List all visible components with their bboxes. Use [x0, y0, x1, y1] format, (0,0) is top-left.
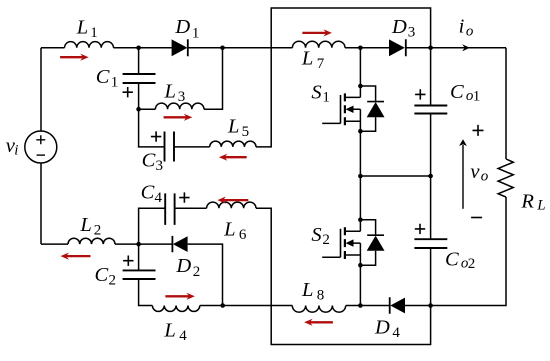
svg-text:L: L	[223, 218, 235, 240]
wire C2 top lead	[138, 244, 140, 270]
svg-text:1: 1	[90, 25, 98, 41]
svg-text:v: v	[470, 161, 480, 183]
junction node C1-L3	[136, 107, 141, 112]
svg-text:5: 5	[242, 124, 250, 140]
S1 gate lead	[322, 122, 340, 124]
svg-text:2: 2	[322, 232, 330, 248]
svg-text:4: 4	[155, 190, 163, 206]
svg-text:o: o	[466, 23, 474, 39]
current arrow L7 shaft	[302, 32, 327, 34]
current arrow L7 head	[323, 29, 332, 36]
wire load column upper	[505, 48, 507, 159]
wire C3 to L5	[174, 146, 210, 148]
svg-text:2: 2	[468, 256, 476, 272]
vo minus sign	[471, 217, 482, 219]
current arrow L5 shaft	[224, 156, 247, 158]
svg-text:L: L	[163, 319, 175, 341]
svg-text:R: R	[520, 190, 534, 212]
label L8	[301, 279, 324, 304]
inductor L2	[68, 238, 115, 244]
label vi	[6, 135, 19, 159]
capacitor Co1 plates	[414, 106, 447, 114]
wire D1 to L7	[188, 47, 293, 49]
junction node L8-S2-D4	[358, 303, 363, 308]
wire S1 drain stub column	[359, 86, 361, 131]
svg-text:1: 1	[473, 89, 481, 105]
S2 channel dashes	[344, 227, 346, 259]
current arrow L3 shaft	[164, 116, 188, 118]
inductor L8	[292, 306, 345, 313]
current arrow L2 head	[61, 253, 70, 260]
svg-text:S: S	[311, 224, 321, 246]
wire L3 right riser	[204, 48, 223, 109]
svg-text:C: C	[450, 81, 464, 103]
wire C1 bottom to C3 corner	[139, 83, 165, 147]
label vo	[470, 161, 488, 185]
svg-text:4: 4	[392, 325, 400, 341]
Co1 plus sign	[415, 89, 425, 99]
svg-text:L: L	[164, 81, 176, 103]
label C2	[95, 264, 117, 289]
svg-text:o: o	[481, 169, 489, 185]
svg-text:D: D	[374, 317, 390, 339]
label L5	[227, 116, 249, 141]
svg-text:1: 1	[192, 25, 200, 41]
svg-text:L: L	[301, 279, 313, 301]
wire L7 to D3	[345, 47, 389, 49]
wire Co column bottom	[430, 248, 432, 306]
current arrow L8 head	[304, 319, 313, 326]
wire L2 to node	[115, 243, 172, 245]
capacitor Co2 plates	[414, 239, 447, 248]
capacitor C2 plates	[123, 270, 156, 279]
S2 body diode branch	[360, 220, 375, 266]
wire vi bottom lead	[40, 163, 42, 244]
wire L8 to L4 node	[223, 305, 293, 307]
svg-text:L: L	[301, 48, 313, 70]
svg-text:3: 3	[408, 24, 416, 40]
current arrow L4 shaft	[165, 295, 190, 297]
vo arrow	[462, 145, 464, 209]
label L3	[164, 81, 186, 106]
S2 body diode triangle	[367, 236, 385, 251]
svg-text:L: L	[76, 17, 88, 39]
S1 body diode branch	[360, 86, 375, 131]
svg-text:C: C	[141, 181, 155, 203]
wire bottom rail D4 right	[405, 305, 431, 307]
C2 plus sign	[123, 256, 133, 266]
junction node mid rail	[358, 174, 363, 179]
inductor L6	[207, 202, 256, 208]
label L4	[163, 319, 187, 344]
wire D2 anode to corner down	[188, 244, 223, 305]
current arrow L5 head	[219, 154, 228, 161]
label Co1	[450, 81, 480, 104]
svg-text:1: 1	[322, 90, 330, 106]
svg-text:8: 8	[317, 288, 325, 304]
svg-text:D: D	[175, 255, 191, 277]
wire C1 top lead	[138, 48, 140, 74]
svg-text:2: 2	[109, 272, 117, 288]
junction node D4-Co2-load	[428, 303, 433, 308]
S2 stubs	[345, 231, 361, 255]
wire Co column top	[430, 48, 432, 106]
Co2 plus sign	[415, 224, 425, 234]
vi minus sign	[37, 154, 45, 156]
junction node S1 drain	[358, 84, 363, 89]
junction node L2-C4-C2-D2	[136, 242, 141, 247]
wire L6 right to box bottom edge	[256, 208, 431, 344]
label D2	[175, 255, 200, 280]
label L7	[301, 48, 325, 73]
S2 body diode bar	[367, 234, 384, 236]
wire C4 riser	[139, 208, 166, 244]
svg-text:S: S	[311, 82, 321, 104]
S1 stubs	[345, 97, 361, 121]
capacitor C3 plates	[165, 132, 175, 162]
wire Co column middle	[430, 114, 432, 240]
wire C4 to L6	[175, 207, 207, 209]
resistor RL	[498, 159, 513, 197]
inductor L1	[65, 42, 114, 48]
junction node S1 source	[358, 129, 363, 134]
wire S column top	[359, 48, 361, 86]
inductor L3	[155, 103, 204, 109]
junction node L1-C1-D1	[136, 46, 141, 51]
C4 plus sign	[179, 192, 189, 202]
label S2	[311, 224, 330, 248]
label C1	[96, 66, 119, 91]
svg-text:D: D	[174, 16, 190, 38]
mid rail wire	[360, 175, 430, 177]
wire S2 drain stub column	[359, 220, 361, 266]
C3 plus sign	[151, 131, 161, 141]
vo plus sign	[473, 125, 484, 136]
svg-text:2: 2	[193, 264, 201, 280]
current arrow L1 shaft	[60, 56, 84, 58]
wire S column bottom	[359, 265, 361, 305]
inductor L4	[152, 306, 199, 312]
junction node L4-D2-rail	[220, 303, 225, 308]
capacitor C1 plates	[123, 74, 156, 83]
label L2	[79, 214, 101, 239]
label S1	[311, 82, 330, 106]
svg-text:L: L	[536, 198, 545, 214]
current arrow L3 head	[184, 114, 193, 121]
svg-text:i: i	[14, 143, 18, 159]
diode D4	[389, 297, 405, 313]
wire C2 bottom corner to L4	[139, 279, 153, 306]
current arrow L1 head	[80, 54, 89, 61]
label D1	[174, 16, 199, 41]
S1 body diode triangle	[367, 102, 385, 117]
label RL	[520, 190, 545, 213]
svg-text:C: C	[445, 249, 459, 271]
svg-text:1: 1	[111, 75, 119, 91]
S1 channel dashes	[344, 93, 346, 125]
current arrow L6 shaft	[222, 199, 248, 201]
svg-text:4: 4	[179, 328, 187, 344]
diode D2	[172, 236, 188, 252]
svg-text:D: D	[391, 16, 407, 38]
wire top rail left	[41, 47, 65, 49]
svg-text:C: C	[96, 66, 110, 88]
svg-text:C: C	[95, 264, 109, 286]
svg-text:L: L	[79, 214, 91, 236]
svg-text:3: 3	[178, 89, 186, 105]
svg-text:C: C	[142, 150, 156, 172]
diode D1	[172, 39, 189, 56]
wire L1 to D1	[114, 47, 172, 49]
wire L3 left lead	[139, 108, 156, 110]
label C3	[142, 150, 163, 174]
svg-text:2: 2	[94, 223, 102, 239]
junction node L7-S1-D3	[358, 46, 363, 51]
S1 gate bar	[340, 95, 342, 123]
wire load column lower	[431, 197, 506, 306]
label D4	[374, 317, 400, 342]
label L1	[76, 17, 98, 41]
label Co2	[445, 249, 475, 272]
S1 arrow on stub	[346, 106, 354, 113]
svg-text:7: 7	[317, 56, 325, 72]
C1 plus sign	[123, 87, 133, 97]
current arrow L4 head	[186, 293, 195, 300]
S1 body diode bar	[367, 101, 384, 103]
junction node S2 source	[358, 263, 363, 268]
wire L5 right to box top edge	[256, 8, 431, 147]
wire S column middle	[359, 131, 361, 220]
label D3	[391, 16, 415, 41]
junction node D1-L3	[220, 46, 225, 51]
voltage source vi circle	[25, 131, 57, 163]
svg-text:L: L	[227, 116, 239, 138]
current arrow L2 shaft	[65, 255, 90, 257]
current arrow L6 head	[217, 197, 226, 204]
vi plus sign	[36, 135, 45, 144]
wire L4 right lead	[200, 305, 223, 307]
junction node S2 drain	[358, 217, 363, 222]
svg-text:6: 6	[239, 227, 247, 243]
label C4	[141, 181, 163, 206]
svg-text:3: 3	[156, 158, 164, 174]
diode D3	[389, 39, 407, 56]
junction node D3-Co1-io	[428, 46, 433, 51]
current arrow L8 shaft	[309, 321, 333, 323]
inductor L7	[292, 41, 345, 48]
label io	[459, 16, 474, 40]
wire D3 to load corner	[406, 47, 506, 49]
S2 gate bar	[340, 229, 342, 257]
capacitor C4 plates	[165, 193, 174, 225]
S2 gate lead	[322, 256, 340, 258]
svg-text:i: i	[459, 16, 465, 38]
wire D4 left to S node	[346, 305, 390, 307]
S2 arrow on stub	[346, 239, 354, 246]
wire L2 rail left	[41, 243, 68, 245]
wire vi top lead	[40, 48, 42, 131]
inductor L5	[210, 141, 256, 147]
io arrowhead	[462, 44, 470, 51]
label L6	[223, 218, 247, 243]
junction node Co1-Co2	[428, 174, 433, 179]
